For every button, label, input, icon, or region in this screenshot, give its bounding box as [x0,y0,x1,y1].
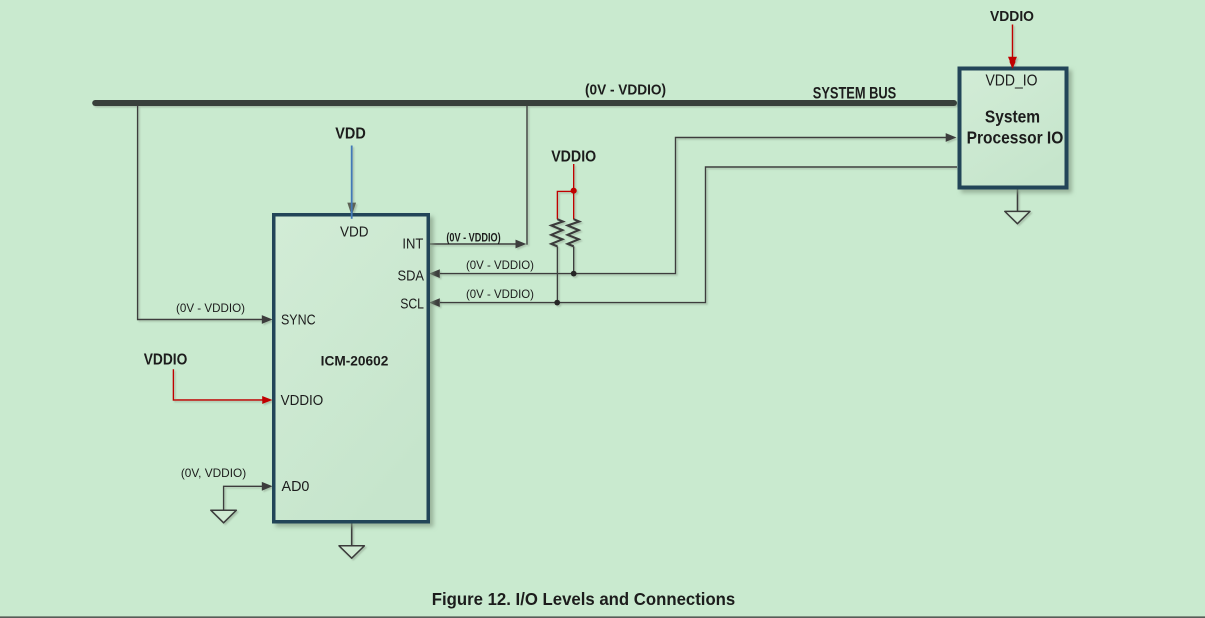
wire: R1 bottom to SCL [556,246,558,302]
svg-text:Figure 12. I/O Levels and Conn: Figure 12. I/O Levels and Connections [432,589,736,609]
svg-text:VDDIO: VDDIO [144,351,188,368]
ground (AD0) [211,510,237,523]
System Processor IO device box [960,69,1067,188]
wire: SDA net [440,138,946,274]
svg-text:VDD: VDD [335,126,366,143]
wire: SYSTEM BUS thick net [95,100,954,106]
wire: INT to bus vertical [430,243,516,245]
wire: red VDDIO to VDDIO pin [173,369,262,400]
svg-text:System: System [985,106,1040,126]
wire: red tee horizontal [557,191,574,219]
svg-text:VDD: VDD [340,223,369,240]
resistor R1 (pull-up to SCL) [551,219,563,246]
ground (ICM-20602) [339,546,364,558]
svg-text:VDDIO: VDDIO [281,392,324,409]
wire: System Processor ground stem [1017,190,1019,212]
junction node on SDA [571,271,577,277]
arrowhead red overlap into VDD_IO box [1009,62,1015,69]
svg-text:(0V - VDDIO): (0V - VDDIO) [176,301,245,315]
junction node on SCL [554,300,560,306]
arrowhead red into VDDIO pin [262,396,272,404]
wire: VDD blue line overlap into box [351,211,353,219]
svg-text:(0V - VDDIO): (0V - VDDIO) [466,287,534,301]
svg-text:SCL: SCL [400,296,424,313]
arrowhead into SYNC pin [262,315,273,324]
svg-text:AD0: AD0 [282,478,310,495]
wire: bus drop to SYNC [138,105,263,320]
wire: SCL net [440,167,957,303]
bottom rule [0,617,1205,618]
svg-text:(0V - VDDIO): (0V - VDDIO) [585,82,666,98]
svg-text:SDA: SDA [398,267,425,284]
wire: bus drop to INT [526,105,528,245]
wire: red VDDIO supply to System Processor [1012,25,1014,59]
arrowhead into SDA pin [429,269,440,278]
svg-text:(0V, VDDIO): (0V, VDDIO) [181,466,246,480]
arrowhead red into VDD_IO [1008,57,1017,68]
svg-text:VDD_IO: VDD_IO [985,72,1037,89]
wire: VDD blue supply arrow [347,203,356,216]
svg-text:VDDIO: VDDIO [551,148,596,165]
wire: ICM ground stem [351,524,353,546]
svg-text:VDDIO: VDDIO [990,8,1034,25]
ground (System Processor IO) [1005,211,1030,223]
svg-text:SYNC: SYNC [281,311,316,328]
wire: R2 bottom to SDA [573,246,575,273]
resistor R2 (pull-up to SDA) [568,219,580,246]
svg-text:ICM-20602: ICM-20602 [321,354,389,369]
wire: AD0 tie [224,486,263,509]
svg-text:(0V - VDDIO): (0V - VDDIO) [466,258,534,272]
svg-text:INT: INT [402,236,423,253]
arrowhead into AD0 pin [262,482,273,491]
arrowhead into System Processor IO (SDA) [946,133,957,142]
svg-text:SYSTEM BUS: SYSTEM BUS [813,85,897,103]
svg-text:Processor IO: Processor IO [967,127,1064,147]
arrowhead into SCL pin [429,298,440,307]
junction dot (red) [571,188,577,194]
wire: red drop right resistor [573,190,575,219]
wire: red VDDIO stem to pull-ups [573,164,575,191]
ICM-20602 device box [274,215,429,522]
arrowhead INT wire [516,240,527,249]
svg-text:(0V - VDDIO): (0V - VDDIO) [446,232,500,244]
